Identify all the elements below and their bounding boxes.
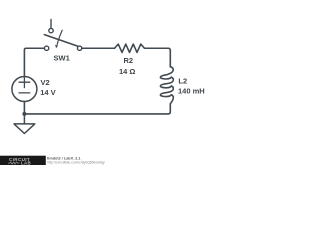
svg-text:V2: V2 [41, 78, 50, 87]
node junction [22, 112, 26, 116]
svg-text:140 mH: 140 mH [178, 87, 205, 96]
svg-text:R2: R2 [124, 56, 134, 65]
inductor L2 coil and bottom wire [24, 67, 173, 114]
switch SW1 [44, 20, 81, 51]
wire resistor to inductor [145, 48, 171, 67]
wire top-left [24, 48, 44, 76]
watermark logo zigzag [8, 162, 19, 164]
svg-text:SW1: SW1 [54, 54, 70, 63]
svg-text:L2: L2 [178, 76, 187, 85]
ground [14, 114, 35, 134]
watermark badge [0, 156, 46, 165]
svg-text:14 V: 14 V [40, 88, 55, 97]
wire V2 to junction [23, 102, 25, 114]
svg-text:14 Ω: 14 Ω [119, 67, 135, 76]
resistor R2 [115, 44, 145, 52]
voltage source V2 [12, 77, 37, 102]
wire switch to resistor [82, 47, 115, 49]
svg-text:http://circuitlab.com/c/8ybq55: http://circuitlab.com/c/8ybq55kw3tqy [47, 160, 105, 164]
svg-text:LAB: LAB [21, 161, 31, 165]
